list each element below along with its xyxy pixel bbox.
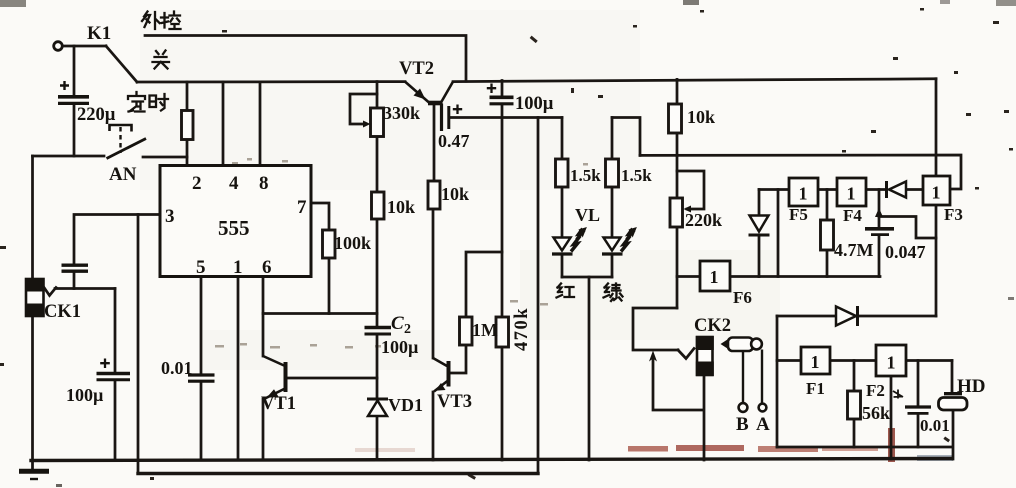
label 定时 (timing)	[128, 92, 168, 112]
svg-text:10k: 10k	[441, 184, 469, 204]
wire LED red cathode down	[561, 256, 564, 278]
wire F5/F4 loop bottom	[759, 275, 880, 278]
capacitor 100u (top rail)	[487, 84, 514, 104]
svg-text:1.5k: 1.5k	[621, 166, 652, 185]
wire F5 feedback vertical	[777, 190, 780, 277]
svg-text:5: 5	[196, 257, 206, 278]
terminal B	[739, 403, 748, 412]
gate F4	[837, 178, 866, 206]
svg-text:100k: 100k	[334, 233, 371, 253]
svg-text:F2: F2	[866, 381, 885, 400]
wire F5 to F4	[818, 188, 837, 191]
resistor 470k	[496, 317, 509, 347]
wire pin3 output bus (second bottom rail)	[138, 472, 538, 475]
resistor 10k (VT2 base)	[428, 181, 440, 209]
svg-text:F6: F6	[733, 288, 752, 307]
wire F6 output to diode	[730, 275, 759, 278]
svg-text:F3: F3	[944, 205, 963, 224]
wire 555 pin3 output left	[74, 215, 160, 264]
wire alarm left vertical	[776, 316, 779, 447]
svg-text:0.01: 0.01	[161, 358, 193, 378]
svg-text:VT2: VT2	[399, 59, 434, 79]
wire 0.047 bottom to loop	[878, 236, 881, 277]
wire C2 bottom to VD1	[376, 336, 379, 399]
label 绿 (green)	[604, 284, 623, 302]
wire CK2 sleeve to ground rail	[703, 375, 706, 460]
svg-text:10k: 10k	[687, 107, 715, 127]
svg-text:VT1: VT1	[261, 394, 296, 414]
wire rail stub to 100u cap	[501, 81, 504, 96]
svg-text:10k: 10k	[387, 197, 415, 217]
wire LED green branch top	[612, 118, 640, 156]
wire 220k to F6 node	[676, 227, 679, 308]
LED VL red	[552, 227, 587, 254]
capacitor 220u	[58, 81, 89, 103]
switch K1 blade (diagonal)	[106, 46, 137, 82]
svg-text:0.01: 0.01	[920, 416, 950, 435]
wire F4 to diode	[866, 188, 885, 191]
resistor 1.5k (green LED)	[606, 159, 619, 187]
wire left vertical to CK1 top	[31, 156, 34, 280]
wire 1.5k no.2 drop	[611, 118, 614, 160]
svg-text:4: 4	[229, 173, 239, 194]
svg-text:2: 2	[192, 173, 202, 194]
svg-text:A: A	[756, 414, 770, 435]
resistor 1.5k (red LED)	[556, 159, 569, 187]
wire rail to 330k pot	[376, 82, 379, 108]
wire LED green cathode down	[611, 256, 614, 278]
terminal K1 input circle	[54, 42, 63, 51]
svg-text:1: 1	[710, 267, 719, 287]
svg-text:1: 1	[847, 184, 856, 204]
capacitor 0.047	[865, 229, 894, 235]
wire HD feed	[951, 361, 954, 393]
wire VT1 emitter to ground rail	[262, 399, 265, 460]
svg-text:VT3: VT3	[437, 392, 472, 412]
wire pin3 long drop to output bus	[137, 215, 140, 474]
wire F3 output down	[935, 205, 938, 316]
wire CK2 make-contact with arrow	[653, 359, 703, 410]
gate F3	[923, 176, 950, 205]
wire VT3 base to 1M	[450, 345, 466, 373]
wire F2 output to HD	[906, 359, 952, 362]
wire AN right to pin2 line	[143, 156, 187, 159]
wire CK2 upper contact path	[633, 308, 678, 350]
svg-text:0.47: 0.47	[438, 131, 470, 151]
resistor 1M	[460, 317, 473, 345]
potentiometer 330k	[363, 108, 384, 137]
wire 220u cap branch lower	[73, 105, 76, 157]
wire node pin6/100k/C2 horizontal	[263, 312, 377, 315]
wire 555 pin4 drop	[222, 82, 225, 166]
transistor VT3	[433, 358, 449, 392]
wire K1 terminal to switch	[63, 45, 106, 48]
wire F3 top feed (rail corner down to F3)	[935, 79, 938, 176]
wire mid rail (to F3 right loop)	[640, 155, 961, 189]
svg-text:0.047: 0.047	[885, 242, 926, 262]
svg-text:1M: 1M	[472, 320, 498, 340]
svg-text:2: 2	[404, 322, 411, 337]
wire 220u cap branch upper	[73, 46, 76, 96]
wire 1.5k no.1 to LED red	[561, 187, 564, 237]
svg-text:F4: F4	[843, 206, 862, 225]
svg-text:220µ: 220µ	[77, 105, 116, 125]
gate F2	[876, 345, 906, 376]
wire CK1 bottom to ground	[31, 315, 34, 472]
diode (F4 to F3, pointing left)	[887, 181, 907, 198]
diode (F6 to F5 node)	[749, 216, 770, 236]
wire CK1 tip node horizontal	[55, 287, 115, 290]
resistor 56k	[848, 391, 861, 419]
LED VL green	[602, 227, 637, 254]
capacitor 0.01 (pin5)	[188, 375, 215, 381]
resistor 10k (right)	[669, 104, 682, 133]
pushbutton AN	[107, 125, 147, 159]
wire main ground rail	[31, 459, 952, 461]
wire 555 pin8 drop	[259, 82, 262, 166]
wire 1M top to 470k node	[466, 252, 502, 317]
transistor VT1	[263, 356, 286, 399]
svg-text:8: 8	[259, 173, 269, 194]
svg-text:C: C	[391, 313, 404, 334]
gate F6	[700, 261, 730, 291]
svg-text:7: 7	[297, 197, 307, 218]
wire output bus riser to 0.47 node	[537, 118, 540, 474]
resistor 10k (under 330k)	[372, 192, 385, 219]
svg-text:B: B	[736, 414, 749, 435]
CK2 make-contact arrow	[649, 351, 657, 362]
wire 330k to 10k	[376, 137, 379, 193]
svg-text:470k: 470k	[512, 307, 532, 351]
wire 0.01 bottom to loop	[917, 415, 920, 447]
svg-text:AN: AN	[109, 164, 137, 185]
svg-text:F1: F1	[806, 379, 825, 398]
gate F1	[801, 347, 830, 374]
svg-text:1: 1	[932, 183, 941, 203]
diode VD1	[367, 399, 388, 416]
wire F6 input	[677, 275, 700, 278]
jack CK2	[696, 336, 714, 376]
label 外控 (external control)	[142, 12, 181, 30]
wire 0.047 node drop	[878, 190, 881, 228]
wire 220k wiper loop	[677, 171, 704, 209]
buzzer HD	[939, 394, 968, 410]
capacitor 100u (CK1 side)	[97, 359, 131, 380]
wire VT2 base down to 10k	[433, 105, 436, 181]
svg-text:1: 1	[811, 352, 820, 372]
svg-text:100µ: 100µ	[381, 337, 419, 357]
svg-text:K1: K1	[87, 23, 111, 44]
wire 555 pin5 to 0.01 cap	[200, 277, 203, 374]
svg-text:1.5k: 1.5k	[570, 166, 601, 185]
capacitor 0.47	[442, 104, 463, 132]
wire F2 bottom thick drop	[890, 376, 893, 459]
resistor 4.7M	[821, 220, 834, 250]
star mark near F2	[893, 390, 903, 399]
wire alarm diode line	[777, 315, 936, 318]
diode (alarm line, pointing right)	[836, 306, 858, 326]
svg-text:555: 555	[218, 216, 250, 240]
svg-text:6: 6	[262, 257, 272, 278]
transistor VT2 (pnp, on top rail)	[405, 82, 453, 103]
node 外控 external-control input wire	[145, 36, 466, 82]
wire 555 pin6 down to VT1 collector	[262, 277, 265, 357]
jack CK1 contact notch	[43, 286, 56, 296]
wire 10k no.3 to mid rail	[676, 133, 679, 155]
wire AN left feed	[33, 155, 105, 158]
wire 56k drop	[853, 361, 856, 392]
wire 100u cap to ground rail	[114, 382, 117, 461]
wire 470k to ground rail	[501, 347, 504, 460]
wire 4.7M drop	[826, 190, 829, 221]
wire 10k to VT3 collector	[432, 209, 435, 358]
svg-text:56k: 56k	[862, 403, 890, 423]
wire 100k bottom to node	[328, 258, 331, 314]
svg-text:220k: 220k	[685, 210, 722, 230]
wire 555 pin2 drop with resistor	[186, 82, 189, 166]
wire top supply rail left segment (K1 to VT2 emitter)	[137, 80, 405, 83]
label 关 (off)	[153, 51, 170, 69]
wire HD bottom to ground rail	[952, 410, 955, 459]
resistor R (pin2 series)	[182, 111, 194, 140]
capacitor 0.01 (alarm)	[905, 407, 931, 413]
gate F5	[789, 178, 818, 206]
wire 56k bottom to loop	[853, 419, 856, 447]
capacitor coupling (pin3)	[62, 265, 89, 271]
wire LED common to ground rail	[588, 277, 591, 460]
svg-text:4.7M: 4.7M	[834, 240, 874, 260]
svg-text:1: 1	[799, 184, 808, 204]
svg-text:CK1: CK1	[44, 302, 81, 322]
junction dot 0.047 node	[875, 208, 883, 217]
ground symbol	[19, 471, 49, 479]
svg-text:VD1: VD1	[388, 395, 423, 415]
wire VT3 emitter to ground rail	[432, 392, 435, 460]
potentiometer 220k	[670, 198, 691, 227]
wire 0.047 node to F3 bottom	[879, 217, 936, 239]
svg-text:100µ: 100µ	[515, 94, 554, 114]
wire 0.01 cap to ground rail	[200, 383, 203, 460]
wire rail to 10k no.3	[676, 79, 679, 104]
svg-text:HD: HD	[957, 376, 986, 397]
svg-text:3: 3	[165, 206, 175, 227]
wire 555 pin7 to 100k	[311, 203, 329, 230]
wire 555 pin1 to ground rail	[237, 277, 240, 461]
svg-text:CK2: CK2	[694, 316, 731, 336]
plug (phone plug of CK2)	[721, 338, 763, 404]
svg-text:100µ: 100µ	[66, 385, 104, 405]
resistor 100k (pin7)	[323, 230, 336, 258]
wire mid rail to 220k pot	[676, 155, 679, 198]
label 红 (red)	[557, 284, 575, 298]
wire 0.01 drop	[917, 361, 920, 406]
wire F5 input	[759, 188, 789, 191]
wire VT1 base to C2 line	[287, 377, 377, 380]
wire 10k to C2 top	[376, 219, 379, 326]
jack CK1	[25, 278, 45, 317]
wire alarm loop bottom	[777, 446, 952, 449]
wire 1.5k no.1 drop	[561, 118, 564, 160]
wire diode to F5 input line	[758, 237, 761, 277]
wire VD1 to ground rail	[376, 416, 379, 460]
wire 330k wiper loop	[350, 94, 377, 124]
wire top supply rail right segment (VT2 collector to F3 top corner)	[453, 79, 936, 82]
wire pin3 cap to CK1 node	[73, 273, 76, 289]
svg-text:330k: 330k	[383, 103, 420, 123]
wire 1.5k no.2 to LED green	[611, 187, 614, 237]
capacitor C2 100u	[365, 328, 392, 335]
svg-text:VL: VL	[575, 205, 600, 225]
svg-text:F5: F5	[789, 205, 808, 224]
wire 100u cap down to 470k	[501, 106, 504, 318]
svg-text:1: 1	[233, 257, 243, 278]
wire diode to F3	[906, 188, 923, 191]
jack CK2 contact notch	[678, 349, 694, 359]
wire 4.7M bottom	[826, 250, 829, 277]
wire diode top riser	[758, 190, 761, 216]
terminal A	[759, 404, 767, 412]
IC U1 555 box	[160, 166, 311, 277]
svg-text:1: 1	[887, 353, 896, 373]
wire CK1 node down to 100u cap	[114, 289, 117, 372]
wire F1 to F2	[830, 359, 876, 362]
wire F1 input	[777, 359, 801, 362]
wire LED common bottom	[562, 276, 612, 279]
wire 0.47 cap output node (to 1.5k no.1)	[450, 116, 562, 119]
red watermark remnants	[355, 428, 953, 462]
